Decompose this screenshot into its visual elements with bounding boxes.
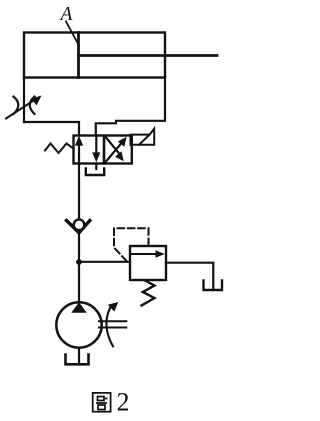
label A leader line [66,22,79,46]
piston [77,33,80,78]
tank at relief outlet [204,281,223,291]
tank under pump [66,355,89,365]
pump outlet port lines [99,321,126,327]
relief valve spring [142,281,155,306]
valve crossed arrow 1 (right envelope) [105,137,126,163]
valve arrow down (left envelope) [92,137,100,163]
svg-text:2: 2 [117,388,130,417]
valve arrow up (left envelope) [75,136,83,163]
throttle valve arrow [6,96,42,119]
wire: P line down [78,164,80,221]
relief valve envelope [130,246,166,280]
wire: relief outlet to tank [166,263,213,289]
valve spring [45,144,74,154]
directional valve left envelope [74,136,105,164]
valve crossed arrow 2 (right envelope) [105,137,124,162]
pilot line (dashed) [114,228,149,261]
wire: cylinder right port down [96,78,165,136]
wire: to junction [78,233,80,301]
pump triangle [71,302,87,313]
wire: pump suction stub [78,348,80,363]
wire: T port stub [95,164,97,170]
wire: branch to relief valve [79,261,130,263]
piston rod [79,54,218,57]
cylinder body [24,33,165,78]
check valve seat [67,221,90,233]
tank under valve [86,169,104,176]
wire: cylinder left port down [23,78,25,123]
pump variable curved arrow [106,302,118,346]
relief valve arrow [131,250,165,257]
wire: bottom left branch [24,122,79,136]
solenoid [131,129,155,145]
check valve circle [74,220,85,231]
directional valve right envelope [104,136,132,164]
svg-text:A: A [59,4,73,25]
junction node [76,259,82,265]
caption glyph tu (figure) [93,393,111,412]
pump circle [56,302,101,347]
throttle valve arcs [14,97,35,114]
